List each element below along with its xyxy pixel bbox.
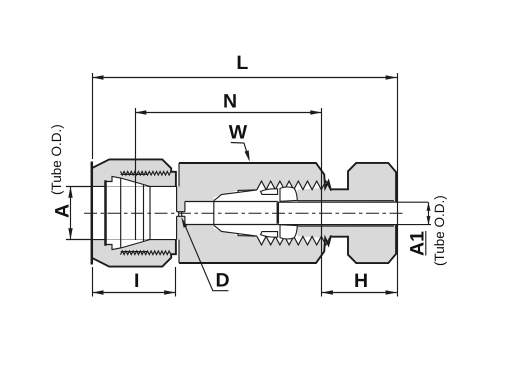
seat cone upper [214, 190, 257, 201]
W leader [231, 143, 249, 160]
dimension N line [135, 112, 322, 114]
left nut lower section fill [92, 240, 176, 267]
body top edge [179, 163, 396, 202]
cavity left face upper [184, 202, 186, 212]
extension line left (L I) [92, 73, 94, 297]
svg-text:N: N [223, 91, 237, 113]
ferrule joint line 3 [149, 187, 151, 240]
right front ferrule lower [261, 232, 278, 238]
dimension H arrow left [322, 290, 333, 294]
extension line right (L H) [397, 73, 399, 297]
left nut upper section fill [92, 159, 176, 186]
ferrule nose gap upper [238, 190, 257, 193]
svg-text:A1: A1 [407, 231, 429, 256]
label A1 underline [425, 231, 427, 256]
cavity lower line [185, 224, 278, 226]
body left face upper [178, 163, 180, 186]
extension line N right / H left [321, 108, 323, 297]
cavity left face lower [184, 216, 186, 224]
body bottom edge [179, 224, 396, 263]
svg-text:A: A [52, 204, 74, 218]
dimension L line [92, 77, 397, 79]
left nut outline lower [92, 240, 176, 267]
svg-text:D: D [216, 270, 230, 292]
right back ferrule lower [280, 225, 297, 239]
body counterbore wall upper [121, 173, 147, 175]
orifice tick 1 [178, 212, 180, 217]
dimension A1 line [428, 202, 430, 224]
ferrule joint line 2 [143, 185, 145, 242]
dimension L arrow right [386, 75, 397, 79]
left nut internal thread upper [121, 171, 171, 175]
left ferrule head white upper [106, 176, 151, 186]
svg-text:W: W [229, 122, 248, 144]
tube lower line [278, 224, 431, 226]
tube stop face upper [176, 186, 178, 211]
ferrule joint line 1 [120, 178, 122, 248]
body lower section fill [177, 216, 326, 263]
right back ferrule upper [280, 187, 297, 201]
dimension A1 arrow top [427, 202, 431, 211]
orifice tick 2 [181, 212, 183, 217]
body left face lower [178, 240, 180, 263]
seat cone lower [214, 225, 257, 236]
dimension I line [92, 292, 175, 294]
svg-text:I: I [134, 270, 139, 292]
D leader with underline [183, 221, 228, 291]
svg-text:(Tube O.D.): (Tube O.D.) [49, 124, 64, 195]
orifice bore lower line [177, 215, 185, 217]
dimension H line [322, 292, 397, 294]
svg-text:L: L [236, 52, 248, 74]
dimension A line [70, 186, 72, 239]
tube stop face lower [176, 216, 178, 239]
left nut internal thread lower [121, 251, 171, 255]
back ferrule rear face [104, 180, 107, 245]
cavity end face [213, 202, 215, 225]
dimension N arrow left [135, 110, 146, 114]
cavity upper line [185, 201, 278, 203]
dimension A extension top [66, 186, 91, 188]
dimension I arrow left [92, 290, 103, 294]
body female thread upper [257, 181, 331, 190]
extension line I right [175, 267, 177, 297]
gland bore lower [297, 225, 394, 227]
dimension L arrow left [92, 75, 103, 79]
right nut lower section fill [297, 224, 396, 263]
D leader arrow [181, 217, 187, 228]
body female thread lower [257, 236, 331, 245]
back ferrule head lower [107, 239, 150, 249]
extension line N left [135, 108, 137, 240]
gland bore upper [297, 200, 394, 202]
left bore upper edge [93, 185, 177, 187]
back ferrule head upper [107, 176, 150, 186]
dimension H arrow right [386, 290, 397, 294]
centerline [84, 212, 406, 214]
W leader arrow [245, 150, 250, 161]
right nut upper section fill [297, 163, 396, 202]
dimension A extension bottom [66, 239, 91, 241]
left nut outline upper [92, 159, 176, 186]
body counterbore wall lower [121, 251, 147, 253]
left ferrule head white lower [106, 239, 151, 249]
orifice bore upper line [177, 211, 185, 213]
ferrule nose gap lower [238, 233, 257, 236]
svg-text:H: H [354, 270, 368, 292]
dimension N arrow right [310, 110, 321, 114]
svg-text:(Tube O.D.): (Tube O.D.) [432, 195, 447, 266]
tube upper line [278, 201, 428, 203]
body upper section fill [177, 163, 326, 212]
dimension A arrow bottom [68, 228, 72, 239]
dimension A arrow top [68, 186, 72, 197]
right front ferrule upper [261, 189, 278, 195]
left nut back face [91, 162, 94, 265]
dimension I arrow right [164, 290, 175, 294]
dimension A1 arrow bottom [427, 216, 431, 225]
small tube end face [277, 202, 280, 223]
left bore lower edge [93, 239, 177, 241]
